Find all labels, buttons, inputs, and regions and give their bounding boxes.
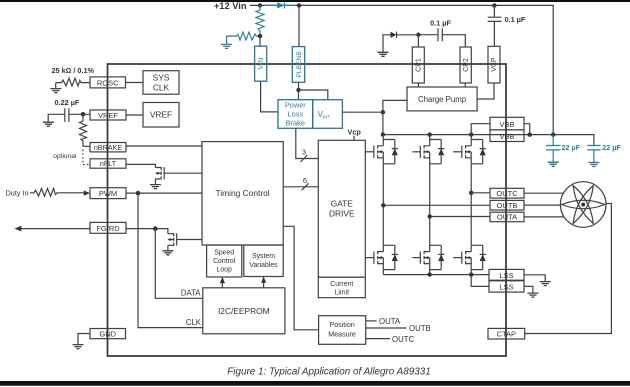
box Current Limit [318,277,365,298]
wire nBRAKE to Timing Control [126,145,202,147]
wire gate low col1 from GATE DRIVE [365,257,374,259]
wire Q1 gate to Timing Control [164,172,202,174]
svg-text:VBB: VBB [499,120,514,129]
motor M1 (fan) [560,182,606,228]
resistor R5 (Duty In) [30,188,85,196]
wire drain Q5 to rail [470,135,472,140]
box System Variables [244,245,283,277]
wire +12Vin rail to top-right corner and down to VBB net [250,5,553,134]
transistor Q7 (low side B) [420,245,444,269]
pin box OUTA [490,212,524,222]
wire GND pin to ground [78,334,90,345]
wire ROSC to SYS CLK [126,82,144,84]
ground (C4, teal) [548,162,559,166]
svg-text:CP1: CP1 [416,58,423,72]
transistor Q4 (high side B) [420,140,444,164]
pin box PLBENB (teal) [292,47,304,83]
resistor R3 (ROSC) [56,78,90,86]
node rail col2 [428,132,432,136]
svg-text:Brake: Brake [286,119,305,128]
gate stub low col3 [453,257,462,259]
svg-text:Loss: Loss [287,110,303,119]
capacitor C4 22uF [546,135,560,162]
wire cap C2 to +12Vin rail [493,5,495,17]
box Speed Control Loop [207,245,242,277]
wire Timing Control to Position Measure [283,226,318,329]
svg-text:CTAP: CTAP [497,330,516,339]
wire R3 to ground [55,83,57,89]
svg-text:GATE: GATE [331,199,354,209]
box GATE DRIVE [318,140,365,277]
svg-text:CLK: CLK [153,83,170,93]
wire cap C1 to CP2 pin [443,35,465,47]
VBB high-side rail [383,135,594,146]
wire motor phase C [524,192,564,194]
svg-text:FG/RD: FG/RD [96,224,120,233]
svg-text:VIN: VIN [258,58,265,70]
wire DATA from FG/RD node to I2C/EEPROM [155,229,203,299]
wire diode to CP1 node [397,34,419,36]
wire Timing Control to GATE DRIVE (6-bus) [283,186,318,188]
box SYS CLK [143,71,179,95]
node PWM/CLK branch [136,191,141,196]
box Timing Control [202,142,283,245]
node above CP1 [416,33,420,37]
svg-text:LSS: LSS [499,271,513,280]
wire OUTC phase to pin [471,192,490,194]
pin box nBRAKE [90,143,126,152]
capacitor C2 0.1uF (VCP) [488,17,502,21]
node rail col1 [381,132,385,136]
wire source Q7 to LSS rail [429,270,431,275]
wire Q1 source to ground [154,179,156,184]
ground (GND pin) [73,345,84,349]
node at PLBENB branch [297,3,301,7]
wire PLBENB pin down to node [298,82,300,100]
svg-text:CP2: CP2 [463,58,470,72]
svg-text:OUTA: OUTA [497,213,517,222]
LSS low-side rail [383,274,489,276]
svg-text:DRIVE: DRIVE [329,209,355,219]
bottom border bar [0,381,630,386]
svg-text:optional: optional [53,153,77,160]
ground (LSS2) [527,293,538,297]
wire Charge Pump to VCP pin [477,83,494,99]
ground (ROSC resistor) [50,89,61,93]
resistor R2 (teal, horizontal to ground) [227,32,260,44]
wire drain Q4 to rail [429,135,431,140]
wire PLBENB pin from +12Vin [298,5,300,46]
resistor R1 (teal, vertical from +12Vin) [256,5,264,36]
bus slash 3 [301,155,308,162]
svg-text:GND: GND [99,330,116,339]
svg-text:OUTB: OUTB [409,324,431,333]
node at R1/R2/VIN junction [258,34,262,38]
svg-text:6: 6 [303,176,307,185]
capacitor C3 0.22uF [65,108,69,122]
svg-text:0.22 µF: 0.22 µF [55,98,80,107]
wire VINT to Vcp junction, up to Charge Pump [342,100,407,112]
node LSS rail col2 [428,272,432,276]
svg-text:PLBENB: PLBENB [296,51,303,78]
ground (teal, at R2) [221,44,232,48]
wire OUTA phase to pin [430,216,490,218]
node FG/RD / DATA branch [153,226,158,231]
svg-text:nBRAKE: nBRAKE [94,143,123,152]
svg-text:Variables: Variables [249,262,278,269]
node Vcp junction [381,110,385,114]
wire Position Measure OUTA [366,320,377,322]
capacitor C1 0.1uF (between CP1 CP2) [438,28,442,41]
transistor Q3 (high side A) [374,140,398,164]
wire Position Measure OUTB [366,327,407,329]
gate stub high col3 [453,151,462,153]
wire Q2 gate to Timing Control [177,239,202,241]
pin box LSS (lower) [489,281,524,292]
svg-text:OUTA: OUTA [379,317,401,326]
svg-text:PWM: PWM [99,189,117,198]
diode D1 (teal, series input) [277,2,284,8]
gate stub low col2 [412,257,420,259]
svg-text:System: System [252,253,275,260]
top border bar [0,0,630,2]
wire LSS rail to LSS2 pin [471,275,489,287]
svg-text:Power: Power [285,101,306,110]
wire FG/RD output with arrow [20,228,90,230]
gate stub high col2 [412,151,420,153]
svg-text:VREF: VREF [98,111,118,120]
svg-text:DATA: DATA [181,288,201,297]
svg-text:OUTB: OUTB [497,201,518,210]
svg-text:3: 3 [302,148,306,157]
wire source Q6 to LSS rail [382,270,384,275]
svg-text:Charge Pump: Charge Pump [418,95,467,104]
phase wire col3 [470,164,472,246]
ground (Q2) [162,251,173,255]
pin box PWM [90,188,126,199]
svg-text:LSS: LSS [499,283,513,292]
bus slash 6 [302,183,309,190]
svg-text:nFLT: nFLT [100,159,117,168]
transistor Q5 (high side C) [462,140,486,164]
svg-text:ROSC: ROSC [97,78,119,87]
transistor Q2 (FG/RD open-drain) [168,233,177,245]
pin box nFLT [90,159,126,168]
svg-text:Figure 1: Typical Application: Figure 1: Typical Application of Allegro… [227,367,430,378]
node OUTA [428,214,432,218]
node rail 22uF/top wire [551,133,555,137]
node OUTC [469,191,473,195]
ground (LSS1) [540,282,551,286]
diode D2 (clamp at CP1) [391,32,397,39]
svg-text:SYS: SYS [153,73,170,83]
arrowhead (SV) [261,276,266,282]
svg-text:VCP: VCP [491,57,498,72]
pin box VBB (lower) [490,130,524,142]
transistor Q1 (nFLT open-drain) [155,167,164,179]
pin box FG/RD [90,222,126,233]
svg-text:Control: Control [213,258,236,265]
wire PWM to Timing Control [126,192,202,194]
wire CP1 to Charge Pump [417,83,419,87]
pin box OUTC [490,188,524,198]
svg-text:22 µF: 22 µF [602,143,621,152]
node below PLBENB [296,88,300,92]
wire arrow I2C to System Variables [263,281,265,288]
svg-text:Vcp: Vcp [348,128,362,137]
node OUTB [381,203,385,207]
pin box GND [90,329,126,339]
ground (Q1) [150,185,161,189]
box Power Loss Brake (teal) [278,100,313,129]
wire CLK from PWM node to I2C/EEPROM [138,193,203,328]
svg-text:Position: Position [329,321,354,329]
wire CP2 to Charge Pump [464,83,466,87]
dotted wire optional to nFLT [83,149,90,164]
pin box VREF [90,110,126,120]
svg-text:Current: Current [330,281,353,288]
ground (C5, teal) [588,163,599,167]
wire cap C3 to VREF pin [70,113,91,115]
wire Power Loss Brake to GATE DRIVE (3-bus) [296,128,319,158]
pin box CTAP [488,328,525,339]
wire LSS1 to ground [524,275,545,282]
pin box VIN (teal) [255,46,267,81]
wire Vcp junction down to VBB rail corner [382,112,384,134]
svg-text:22 µF: 22 µF [562,143,581,152]
box VREF (internal reference) [143,103,179,128]
wire motor phase B [524,204,561,206]
arrowhead into PWM [84,190,90,195]
svg-text:0.1 µF: 0.1 µF [430,19,451,28]
svg-text:VBB: VBB [499,132,514,141]
wire VBB1 right to rail [524,124,530,135]
wire teal segment at input diode [264,4,295,6]
phase wire col1 (Q3 source to Q6 drain) [382,164,384,246]
svg-text:VREF: VREF [150,110,172,120]
svg-text:Loop: Loop [217,267,232,274]
wire FG/RD to Q2 drain [126,229,168,234]
svg-text:Limit: Limit [335,289,350,296]
IC chip boundary [108,64,507,356]
wire CP1 pin up to node [417,35,419,47]
svg-text:Speed: Speed [214,250,234,257]
svg-text:0.1 µF: 0.1 µF [505,15,526,24]
svg-text:Measure: Measure [328,331,356,339]
wire VBB1 left to rail [471,124,490,135]
ground (charge pump clamp) [378,52,389,56]
wire R junction to VIN pin [259,36,261,46]
node at VCP cap branch [492,3,496,7]
wire source Q8 to LSS rail [470,270,472,275]
pin box OUTB [490,200,524,210]
wire ground to diode D2 [383,35,391,53]
wire Q2 source to ground [167,245,169,250]
svg-text:OUTC: OUTC [392,335,414,344]
resistor R4 (optional pull-up to nBRAKE) [80,114,90,146]
wire VIN pin down and to Power Loss Brake [261,81,278,112]
wire gate high col1 from GATE DRIVE [365,151,374,153]
box I2C/EEPROM [203,288,285,334]
pin box LSS (upper) [489,269,524,280]
transistor Q8 (low side C) [462,245,486,269]
box Position Measure [319,316,366,345]
pin box VCP [488,46,500,83]
svg-text:Duty In: Duty In [6,189,29,198]
arrowhead (SCL) [220,277,225,283]
box Charge Pump [407,87,477,111]
wire Position Measure OUTC [366,338,390,340]
node LSS rail col3 [469,272,473,276]
wire arrow I2C to Speed Control Loop [221,281,223,288]
pin box CP1 [412,47,424,83]
arrowhead FG/RD [15,226,22,232]
svg-text:25 kΩ / 0.1%: 25 kΩ / 0.1% [52,66,95,75]
wire nFLT to Q1 drain [126,164,155,167]
wire motor phase A [524,216,564,218]
phase wire col2 [429,164,431,246]
node rail col3 [469,132,473,136]
node rail VBB right [528,133,532,137]
wire ground to cap C3 [48,114,64,122]
capacitor C5 22uF [587,146,600,163]
wire OUTB phase to pin [383,204,490,206]
svg-text:CLK: CLK [186,318,202,327]
svg-text:OUTC: OUTC [496,189,518,198]
wire drain Q3 to rail [382,135,384,140]
wire motor center tap to CTAP [525,204,612,334]
node at VREF/resistor junction [81,112,86,117]
transistor Q6 (low side A) [374,245,398,269]
wire Vcp stub [353,136,355,141]
node at +12Vin / resistor [258,3,262,7]
pin box VBB (upper) [490,117,524,130]
svg-text:I2C/EEPROM: I2C/EEPROM [218,306,270,316]
wire VCP pin up to cap C2 [493,21,495,46]
wire LSS2 to ground [524,286,533,292]
svg-text:Timing Control: Timing Control [216,188,270,198]
wire PLBENB node to VINT top [299,90,328,100]
ground (VREF cap) [43,122,54,126]
pin box ROSC [90,77,126,88]
svg-text:+12 Vin: +12 Vin [214,1,247,11]
pin box CP2 [460,47,471,83]
wire node to cap C1 [418,34,437,36]
box VINT (teal) [313,100,343,129]
wire VREF pin to VREF block [126,114,143,116]
